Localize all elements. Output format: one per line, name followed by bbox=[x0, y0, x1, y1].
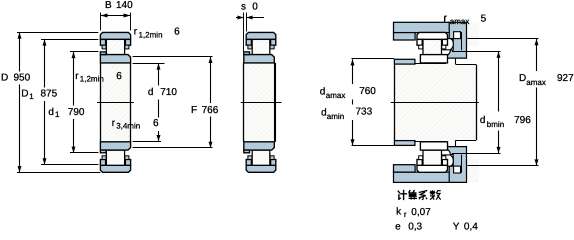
svg-text:D: D bbox=[1, 73, 8, 84]
svg-text:B: B bbox=[105, 0, 112, 11]
svg-text:0,3: 0,3 bbox=[408, 222, 422, 232]
svg-text:710: 710 bbox=[160, 87, 177, 98]
svg-text:140: 140 bbox=[116, 0, 133, 11]
svg-text:790: 790 bbox=[68, 107, 85, 118]
svg-text:D: D bbox=[21, 89, 28, 100]
svg-text:d: d bbox=[148, 87, 154, 98]
svg-text:amax: amax bbox=[450, 17, 470, 26]
svg-text:0: 0 bbox=[252, 2, 258, 13]
svg-text:amax: amax bbox=[326, 91, 346, 100]
svg-text:6: 6 bbox=[116, 71, 122, 82]
svg-text:Y: Y bbox=[453, 222, 460, 232]
svg-text:3,4min: 3,4min bbox=[116, 122, 140, 131]
svg-text:927: 927 bbox=[557, 73, 574, 84]
svg-text:amin: amin bbox=[327, 112, 344, 121]
svg-text:r: r bbox=[404, 210, 407, 219]
svg-text:950: 950 bbox=[14, 73, 31, 84]
svg-text:796: 796 bbox=[514, 115, 531, 126]
svg-text:1: 1 bbox=[29, 92, 34, 101]
svg-text:amax: amax bbox=[526, 78, 546, 87]
svg-text:766: 766 bbox=[202, 105, 219, 116]
svg-text:F: F bbox=[191, 105, 197, 116]
svg-text:6: 6 bbox=[153, 118, 159, 129]
svg-text:s: s bbox=[241, 2, 246, 13]
svg-text:bmin: bmin bbox=[487, 120, 504, 129]
svg-text:6: 6 bbox=[174, 27, 180, 38]
svg-text:1,2min: 1,2min bbox=[80, 75, 104, 84]
svg-text:1,2min: 1,2min bbox=[139, 30, 163, 39]
svg-text:0,07: 0,07 bbox=[411, 207, 431, 218]
svg-text:733: 733 bbox=[356, 107, 373, 118]
svg-text:760: 760 bbox=[359, 86, 376, 97]
svg-text:0,4: 0,4 bbox=[464, 222, 478, 232]
svg-text:d: d bbox=[320, 86, 326, 97]
svg-text:e: e bbox=[395, 222, 401, 232]
svg-text:5: 5 bbox=[481, 13, 487, 24]
svg-text:D: D bbox=[519, 73, 526, 84]
svg-text:d: d bbox=[480, 115, 486, 126]
svg-text:1: 1 bbox=[55, 110, 60, 119]
svg-text:d: d bbox=[48, 107, 54, 118]
svg-text:875: 875 bbox=[41, 89, 58, 100]
